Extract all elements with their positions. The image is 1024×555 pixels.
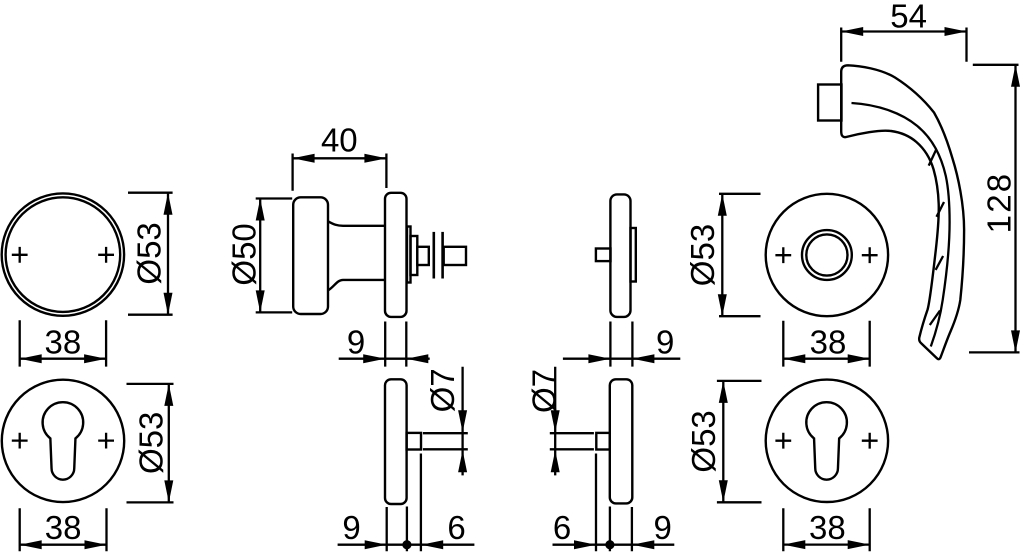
svg-text:54: 54	[890, 0, 927, 35]
dimension 9 (lever rose thickness) extension lines	[610, 322, 632, 367]
dimension 9 (knob rose thickness) dim lines	[339, 358, 430, 360]
screw cross left (lever rose)	[775, 247, 791, 263]
reference dot (right group)	[605, 540, 614, 549]
dimension Ø53 (bottom-right escutcheon) extension lines	[717, 381, 762, 502]
lever handle outline	[841, 65, 964, 359]
dimension Ø53 (lever rose) extension lines	[719, 194, 761, 316]
screw cross right (top rose)	[98, 247, 114, 263]
lever spindle stub (side view)	[596, 249, 611, 262]
svg-text:38: 38	[45, 323, 82, 360]
dimension 9 (knob rose thickness) extension lines	[385, 322, 406, 367]
dimension 38 (top-left rose) dim line	[20, 358, 106, 360]
svg-text:38: 38	[45, 509, 82, 546]
escutcheon stem lines (right)	[550, 433, 594, 449]
svg-text:Ø7: Ø7	[526, 369, 563, 413]
euro profile keyhole (bottom-right)	[806, 402, 847, 480]
knob collar plate	[407, 227, 411, 283]
grip tick 3	[936, 256, 944, 270]
dimension 38 (top-left rose) extension lines	[20, 320, 106, 366]
screw cross left (bottom-right escutcheon)	[775, 433, 791, 449]
screw cross left (bottom-left escutcheon)	[12, 433, 28, 449]
svg-text:Ø53: Ø53	[133, 412, 170, 474]
svg-text:6: 6	[553, 509, 571, 546]
knob rose plan view outer circle	[2, 193, 124, 315]
spindle end	[444, 247, 466, 265]
bottom dims right group dim line	[553, 544, 675, 546]
dimension 54 dim line	[841, 30, 966, 32]
knob rose plan view inner circle	[6, 197, 121, 312]
lever rose collar	[631, 228, 636, 282]
dimension 40 dim line	[293, 157, 387, 159]
reference dot (left group)	[402, 540, 411, 549]
dimension Ø7 (left) dim line	[461, 367, 463, 476]
escutcheon boss (left)	[407, 433, 421, 450]
svg-text:38: 38	[810, 323, 847, 360]
knob neck profile	[328, 221, 386, 290]
grip tick 4	[930, 311, 940, 326]
dimension Ø53 (bottom-left escutcheon) extension lines	[127, 384, 174, 503]
escutcheon boss (right)	[596, 433, 610, 450]
screw cross left (top rose)	[12, 247, 28, 263]
knob rose side view plate	[385, 193, 407, 317]
svg-text:Ø53: Ø53	[684, 224, 721, 286]
svg-text:38: 38	[809, 509, 846, 546]
svg-text:128: 128	[980, 172, 1017, 234]
lever crease line	[852, 103, 950, 347]
lever spindle stub	[818, 85, 841, 121]
dimension Ø7 (right) dim line	[554, 367, 556, 476]
dimension 38 (lever rose) extension lines	[783, 321, 869, 367]
dimension 38 (lever rose) dim line	[783, 358, 869, 360]
lever rose collar ring outer	[802, 230, 852, 280]
bottom dims left group dim line	[338, 544, 475, 546]
knob spindle step block	[411, 236, 418, 275]
escutcheon stem lines (left)	[423, 433, 468, 449]
dimension Ø53 (bottom-left escutcheon) dim line	[168, 384, 170, 503]
dimension Ø53 (top-left rose) extension lines	[128, 193, 173, 315]
dimension Ø50 dim line	[259, 199, 261, 313]
svg-text:40: 40	[321, 122, 358, 159]
dimension 54 extension lines	[841, 28, 966, 62]
dimension 9 (lever rose thickness) dim lines	[563, 358, 680, 360]
dimension 38 (bottom-left escutcheon) dim line	[20, 544, 107, 546]
svg-text:9: 9	[347, 323, 365, 360]
dimension 38 (bottom-right escutcheon) extension lines	[783, 508, 869, 551]
svg-text:9: 9	[654, 509, 672, 546]
dimension 40 extension lines	[293, 154, 387, 191]
dimension 38 (bottom-right escutcheon) dim line	[783, 543, 869, 545]
svg-text:9: 9	[656, 323, 674, 360]
svg-text:Ø7: Ø7	[424, 368, 461, 412]
bottom dims left group extension lines	[387, 454, 421, 552]
dimension Ø50 extension lines	[256, 199, 293, 313]
dimension Ø53 (bottom-right escutcheon) dim line	[722, 381, 724, 502]
dimension Ø53 (lever rose) dim line	[721, 194, 723, 316]
spindle washer 1	[432, 232, 435, 279]
screw cross right (bottom-left escutcheon)	[98, 433, 114, 449]
escutcheon plate side view (right)	[610, 379, 633, 503]
bottom dims right group extension lines	[596, 454, 632, 552]
svg-text:6: 6	[447, 509, 465, 546]
grip tick 1	[929, 150, 936, 166]
euro profile keyhole (bottom-left)	[43, 402, 84, 480]
cylinder escutcheon plan view circle (bottom-right)	[766, 380, 888, 502]
screw cross right (bottom-right escutcheon)	[862, 433, 878, 449]
svg-text:Ø50: Ø50	[226, 223, 263, 285]
lever rose collar ring inner	[806, 234, 847, 275]
lever rose plate side view	[610, 194, 630, 317]
dimension 38 (bottom-left escutcheon) extension lines	[20, 508, 107, 551]
dimension Ø53 (top-left rose) dim line	[167, 193, 169, 315]
svg-text:Ø53: Ø53	[131, 222, 168, 284]
knob face	[293, 197, 328, 314]
dimension 128 dim line	[1014, 65, 1016, 353]
escutcheon plate side view (left)	[385, 379, 407, 504]
dimension 128 reference lines	[969, 65, 1020, 353]
cylinder escutcheon plan view circle (bottom-left)	[2, 380, 124, 502]
spindle washer 2	[441, 232, 444, 279]
knob spindle nut	[417, 247, 429, 265]
svg-text:Ø53: Ø53	[685, 410, 722, 472]
grip tick 2	[937, 202, 945, 217]
svg-text:9: 9	[342, 509, 360, 546]
screw cross right (lever rose)	[862, 247, 878, 263]
lever rose plan view circle	[766, 194, 888, 316]
